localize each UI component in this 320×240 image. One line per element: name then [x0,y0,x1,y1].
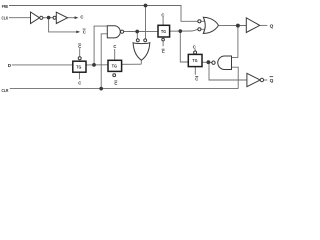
svg-text:C: C [162,49,165,54]
svg-text:Q: Q [270,24,274,30]
node dot CLR rail [100,87,103,90]
inverter INV2 input bubble [53,16,56,19]
feedback gate input bubbles [136,39,139,42]
inverter INV1 [31,12,40,24]
wire buffer to Q [260,24,268,26]
svg-text:C: C [161,12,164,17]
TG4 top bubble [194,51,197,54]
svg-text:C: C [195,76,198,81]
TG1 top bubble [78,57,81,60]
wire NAND1 output to TG3 [124,30,158,32]
wire C net arrow line [67,17,75,19]
wire TG1 control stem bottom [78,72,80,79]
NAND U1 (master) [107,26,120,38]
svg-text:CLK: CLK [2,16,9,21]
svg-text:C: C [114,81,117,86]
wire TG1 control stem top [79,48,81,57]
node dot slave input [179,30,182,33]
svg-text:C: C [78,44,81,49]
node dot PRE rail [144,4,147,7]
wire Cbar net branch [49,18,78,32]
wire TG2 feedback [122,63,142,65]
inverter INV2 [56,12,67,23]
wire node to NAND1 top input [94,26,107,65]
wire TG2 control stem top [114,49,116,60]
svg-text:CLR: CLR [2,88,9,93]
wire NAND1 out to feedback gate input [136,32,138,39]
svg-text:D: D [8,63,12,68]
wire CLR to NAND1 bottom input [101,34,107,89]
OR gate U3 [203,17,218,33]
TG2 bottom bubble [113,74,116,77]
node dot after INV1 [47,16,50,19]
transmission gate TG2 [108,60,122,71]
wire inverter chain [43,17,53,19]
wire CLK to inverter [9,17,31,19]
transmission gate TG1 [73,61,86,72]
wire TG1 to TG2 node [86,64,108,66]
svg-text:TG: TG [112,64,117,69]
transmission gate TG4 [188,54,202,66]
node dot Q [236,24,239,27]
node dot master latch node [93,64,96,67]
svg-text:PRE: PRE [2,4,9,9]
wire slave node down to TG4 [180,31,188,62]
svg-text:TG: TG [76,64,81,69]
OR gate U2 pointing down (master feedback) [133,43,150,61]
svg-text:C: C [80,14,83,19]
wire TG4 control stem bottom [194,67,196,75]
wire node to Qbar inverter [209,63,247,81]
svg-text:Q: Q [270,78,274,84]
svg-text:C: C [83,29,86,34]
wire TG4 control stem top [194,49,196,51]
wire Q node feedback down [232,26,238,58]
inverter U6 (Qbar) [247,73,260,86]
svg-text:TG: TG [161,29,166,34]
NAND U5 (slave feedback, points left) [212,61,215,64]
wire CLR rail [10,88,238,90]
wire TG3 control stem top [162,17,164,26]
wire feedback gate output [140,60,142,64]
node dot NAND1 output [136,30,139,33]
wire D input [12,64,73,66]
arrowhead Cbar [76,31,80,34]
svg-text:C: C [78,81,81,86]
wire PRE rail [9,6,198,22]
node dot TG4 output [207,61,210,64]
wire PRE vertical to master gate [145,6,147,39]
TG3 bottom bubble [162,38,165,41]
buffer U4 [246,18,259,33]
wire OR input stubs [201,20,205,22]
wire TG3 control stem bottom [162,41,164,46]
transmission gate TG3 [158,25,170,37]
svg-text:C: C [113,44,116,49]
OR gate U3 (slave output) input bubbles [198,20,201,23]
wire NAND2 lower input to CLR rail [232,67,239,88]
arrowhead C [75,16,79,19]
wire TG3 output to OR gate [170,29,198,31]
svg-text:C: C [193,45,196,50]
wire TG4 output node [202,61,212,63]
svg-text:TG: TG [192,58,197,63]
wire inverter bubble to Qbar [264,79,268,81]
wire OR gate output to buffer [218,24,246,26]
